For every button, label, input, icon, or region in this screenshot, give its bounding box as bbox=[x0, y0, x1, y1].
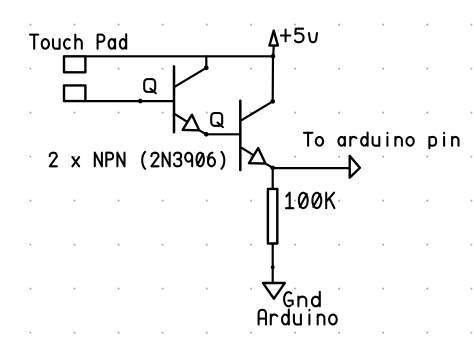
wire: Q1 emitter to Q2 base bbox=[206, 133, 240, 135]
junction: Q1 collector bbox=[204, 66, 209, 71]
ground symbol bbox=[263, 283, 285, 299]
junction: +5v rail / top wire bbox=[271, 54, 276, 59]
label: Arduino bbox=[259, 310, 337, 325]
label: To arduino pin bbox=[304, 133, 459, 149]
+5v supply symbol bbox=[270, 31, 278, 57]
label: 2 x NPN (2N3906) bbox=[50, 152, 225, 169]
wire: resistor to ground bbox=[272, 245, 274, 283]
wire: pad1 to +5v rail (top horizontal) bbox=[86, 55, 273, 57]
junction: Q1 emitter node bbox=[204, 132, 209, 137]
output arrow head (to arduino pin) bbox=[350, 156, 360, 178]
label: Q (Q1) bbox=[144, 79, 156, 93]
junction: Q2 collector bbox=[270, 99, 275, 104]
touch pad plate 1 (top) bbox=[64, 56, 85, 72]
transistor Q1 (NPN) bbox=[174, 66, 206, 134]
junction on Q1 base wire bbox=[138, 99, 143, 104]
resistor R1 100K bbox=[268, 189, 277, 244]
wire: output node to arduino arrow bbox=[273, 167, 350, 169]
touch pad plate 2 (bottom) bbox=[64, 85, 85, 101]
junction: Q2 emitter / output node bbox=[270, 166, 275, 171]
wire: pad2 to Q1 base bbox=[86, 100, 173, 102]
label: 100K bbox=[286, 193, 334, 209]
label: Q (Q2) bbox=[211, 113, 223, 127]
wire: Q1 collector stub to top rail bbox=[205, 56, 207, 68]
wire: output node down to resistor bbox=[272, 168, 274, 188]
label: Gnd bbox=[284, 292, 320, 307]
wire: +5v rail down to Q2 collector bbox=[272, 56, 274, 101]
label: Touch Pad bbox=[30, 34, 126, 48]
label: +5v bbox=[281, 29, 317, 43]
junction: above ground bbox=[271, 265, 275, 269]
transistor Q2 (NPN) bbox=[240, 101, 272, 170]
